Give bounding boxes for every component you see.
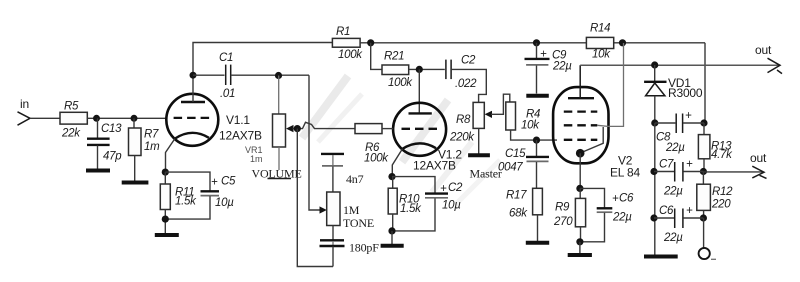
svg-text:out: out (755, 43, 772, 57)
svg-text:1M: 1M (343, 203, 360, 217)
ground (R17) (526, 215, 549, 243)
node P (VD1 top on out wire) (651, 61, 658, 68)
resistor R13 (698, 123, 733, 172)
out arrow top (755, 43, 782, 74)
V2 suppressor tie to cathode (576, 127, 603, 158)
wire C1 to volume node (231, 74, 309, 76)
svg-text:Master: Master (470, 167, 502, 181)
resistor R10 (388, 177, 422, 231)
svg-text:10µ: 10µ (442, 200, 461, 212)
svg-text:C2: C2 (448, 182, 463, 194)
ground (R7) (122, 181, 149, 185)
svg-text:R9: R9 (555, 202, 570, 214)
wire left cap bus (654, 123, 656, 255)
svg-text:270: 270 (553, 216, 573, 228)
svg-text:12AX7B: 12AX7B (219, 129, 262, 143)
node N (V2 cathode node) (576, 185, 583, 192)
resistor R4 (506, 102, 540, 132)
wire input to R5 (30, 117, 60, 119)
svg-text:TONE: TONE (343, 216, 374, 230)
node G (R1 out) (367, 39, 374, 46)
wire down to R21 (371, 43, 382, 70)
VR1 wiper arrow (286, 125, 294, 132)
node R (C8 right) (700, 119, 707, 126)
V1.2 grid (dashed) (402, 128, 439, 130)
capacitor C7 (654, 159, 703, 198)
svg-text:+: + (686, 205, 693, 217)
resistor R14 (586, 23, 613, 61)
capacitor 180pF (320, 226, 380, 267)
node C (VR1 top) (275, 72, 282, 79)
svg-text:R7: R7 (144, 129, 159, 141)
svg-text:1.5k: 1.5k (175, 196, 197, 208)
svg-text:1m: 1m (250, 154, 263, 164)
svg-text:4.7k: 4.7k (711, 149, 733, 161)
svg-text:C7: C7 (659, 159, 674, 171)
wire V1.1 plate lead + top rail left (193, 43, 332, 103)
svg-text:180pF: 180pF (349, 241, 379, 255)
node T (C7 right / out node) (700, 168, 707, 175)
wire C1-node to tone wiper (vertical bus) (309, 75, 321, 210)
svg-text:C2: C2 (461, 55, 476, 67)
V1.2 plate (409, 112, 432, 114)
svg-text:10µ: 10µ (215, 197, 234, 209)
svg-text:+: + (440, 183, 447, 195)
capacitor C6 (cathode bypass) (580, 188, 634, 241)
capacitor 4n7 (321, 154, 364, 192)
ground (V1.1 cathode network) (155, 233, 179, 237)
wire rail right turn down to C8 (704, 43, 706, 123)
capacitor C8 (655, 110, 704, 154)
svg-text:10k: 10k (592, 49, 611, 61)
svg-text:.01: .01 (220, 88, 235, 100)
node F (R11 bottom) (162, 216, 169, 223)
tube V1.1 (166, 94, 262, 146)
potentiometer TONE 1M (327, 192, 374, 230)
svg-text:4n7: 4n7 (346, 172, 364, 186)
ground (cap ladder) (644, 255, 678, 259)
node O (R9 bottom) (576, 238, 583, 245)
ground (C13) (86, 169, 110, 173)
svg-text:100k: 100k (364, 153, 389, 165)
diode VD1 (644, 65, 703, 123)
output terminal (699, 218, 716, 259)
tube V1.2 (393, 103, 462, 173)
svg-text:22k: 22k (61, 128, 81, 140)
node C1 branch on plate lead (190, 72, 197, 79)
svg-text:12AX7B: 12AX7B (413, 159, 456, 173)
resistor R6 (355, 124, 393, 165)
svg-text:100k: 100k (388, 77, 413, 89)
node in (input terminal) (18, 97, 31, 125)
svg-text:47p: 47p (103, 151, 122, 163)
svg-text:22µ: 22µ (663, 186, 683, 198)
svg-text:R14: R14 (590, 23, 610, 35)
svg-text:C6: C6 (659, 205, 674, 217)
V1.1 plate (181, 101, 205, 103)
svg-text:+: + (686, 159, 693, 171)
svg-text:R8: R8 (456, 114, 471, 126)
wire plate lead V1.2 (418, 69, 420, 113)
tube V2 (EL84) (553, 87, 640, 179)
wire wiper junction down to tone bottom (297, 129, 333, 267)
svg-text:V1.1: V1.1 (226, 113, 250, 127)
resistor R21 (382, 51, 413, 90)
resistor R7 (129, 118, 161, 180)
wire wiper to R6 with hop over vertical wire (293, 122, 356, 128)
svg-text:in: in (20, 97, 29, 111)
svg-text:R12: R12 (712, 186, 733, 198)
svg-text:10k: 10k (521, 120, 540, 132)
wire R5 to grid node (87, 117, 167, 119)
V1.1 cathode (175, 133, 209, 139)
node M (R14 out / screen node) (619, 39, 626, 46)
svg-text:R1: R1 (336, 26, 350, 38)
svg-text:220: 220 (711, 199, 731, 211)
node L (C9 rail junction) (533, 39, 540, 46)
svg-text:+: + (612, 193, 619, 205)
wire R4 bottom to V2 grid (511, 130, 557, 140)
node S (C7 left) (650, 168, 657, 175)
capacitor C2 (10µ cathode bypass) (392, 177, 463, 231)
potentiometer R8 (master volume) (449, 102, 484, 143)
svg-text:1m: 1m (144, 141, 160, 153)
svg-text:+: + (540, 49, 547, 61)
svg-text:R5: R5 (64, 101, 79, 113)
wire C2 to R8 (jog) (451, 69, 486, 102)
node K (R4/C15/grid junction) (533, 137, 540, 144)
resistor R1 (332, 26, 363, 61)
svg-text:R17: R17 (506, 190, 527, 202)
svg-text:22µ: 22µ (612, 212, 632, 224)
node V (C6 right lower) (700, 214, 707, 221)
wire V2 plate lead (579, 65, 581, 98)
svg-text:220k: 220k (449, 132, 475, 144)
V2 grid rows (dashed) (564, 110, 598, 112)
svg-text:.022: .022 (455, 78, 477, 90)
V1.2 cathode (403, 143, 437, 148)
wire V1.2 cathode lead (392, 149, 402, 177)
svg-text:+: + (685, 110, 692, 122)
wire V2 cathode lead (579, 153, 581, 188)
capacitor C13 (87, 118, 122, 168)
node Q (C8 left) (651, 119, 658, 126)
node J (R10 bottom) (388, 227, 395, 234)
wire R21 to C2 (409, 68, 445, 70)
wire V1.1 cathode lead (166, 139, 175, 173)
resistor R12 (697, 172, 733, 219)
ground (V2 cathode) (568, 242, 592, 255)
V2 plate (568, 97, 594, 99)
wire V2 screen to rail (597, 43, 623, 126)
wire top rail mid (360, 42, 705, 44)
svg-text:EL 84: EL 84 (610, 166, 640, 180)
node U (C6 left lower) (650, 214, 657, 221)
svg-text:R3000: R3000 (668, 86, 703, 100)
svg-text:100k: 100k (338, 49, 363, 61)
wire V2 plate to out (580, 64, 779, 66)
svg-text:out: out (750, 151, 767, 165)
node B (R7 junction) (131, 115, 138, 122)
TONE pot wiper arrow (320, 206, 327, 213)
ground (R8) (468, 128, 490, 155)
svg-text:C13: C13 (101, 123, 122, 135)
svg-text:C5: C5 (221, 176, 236, 188)
resistor R17 (506, 188, 542, 219)
svg-text:C1: C1 (219, 52, 233, 64)
svg-text:1.5k: 1.5k (400, 203, 422, 215)
capacitor C2 (.022) (446, 55, 477, 91)
capacitor C15 (498, 140, 549, 188)
wire R8 wiper to R4 top (491, 94, 510, 114)
capacitor C5 (165, 172, 236, 219)
svg-text:R21: R21 (384, 51, 404, 63)
resistor R5 (60, 101, 87, 140)
svg-text:22µ: 22µ (552, 61, 572, 73)
ground (V1.2 cathode network) (381, 231, 404, 246)
out arrow lower (703, 151, 767, 178)
node H (V1.2 plate node) (416, 66, 423, 73)
resistor R9 (553, 188, 586, 241)
svg-text:C6: C6 (619, 193, 634, 205)
R8 wiper arrow (485, 111, 492, 118)
V1.1 grid (dashed) (174, 117, 211, 119)
svg-text:68k: 68k (509, 208, 528, 220)
capacitor C9 (525, 43, 573, 94)
node A (R5/C13 junction) (93, 115, 100, 122)
capacitor C1 (193, 52, 235, 100)
node D (VR1 wiper junction) (294, 125, 301, 132)
capacitor C6 (output ladder) (654, 205, 703, 244)
svg-text:+: + (211, 177, 218, 189)
potentiometer VR1 volume (245, 76, 302, 181)
svg-text:0047: 0047 (498, 162, 523, 174)
ground (C9) (526, 94, 549, 98)
resistor R11 (160, 172, 197, 233)
svg-text:22µ: 22µ (665, 142, 685, 154)
svg-text:C15: C15 (505, 148, 526, 160)
svg-text:22µ: 22µ (663, 232, 683, 244)
node E (cathode node V1.1) (162, 169, 169, 176)
node I (V1.2 cathode node) (388, 173, 395, 180)
